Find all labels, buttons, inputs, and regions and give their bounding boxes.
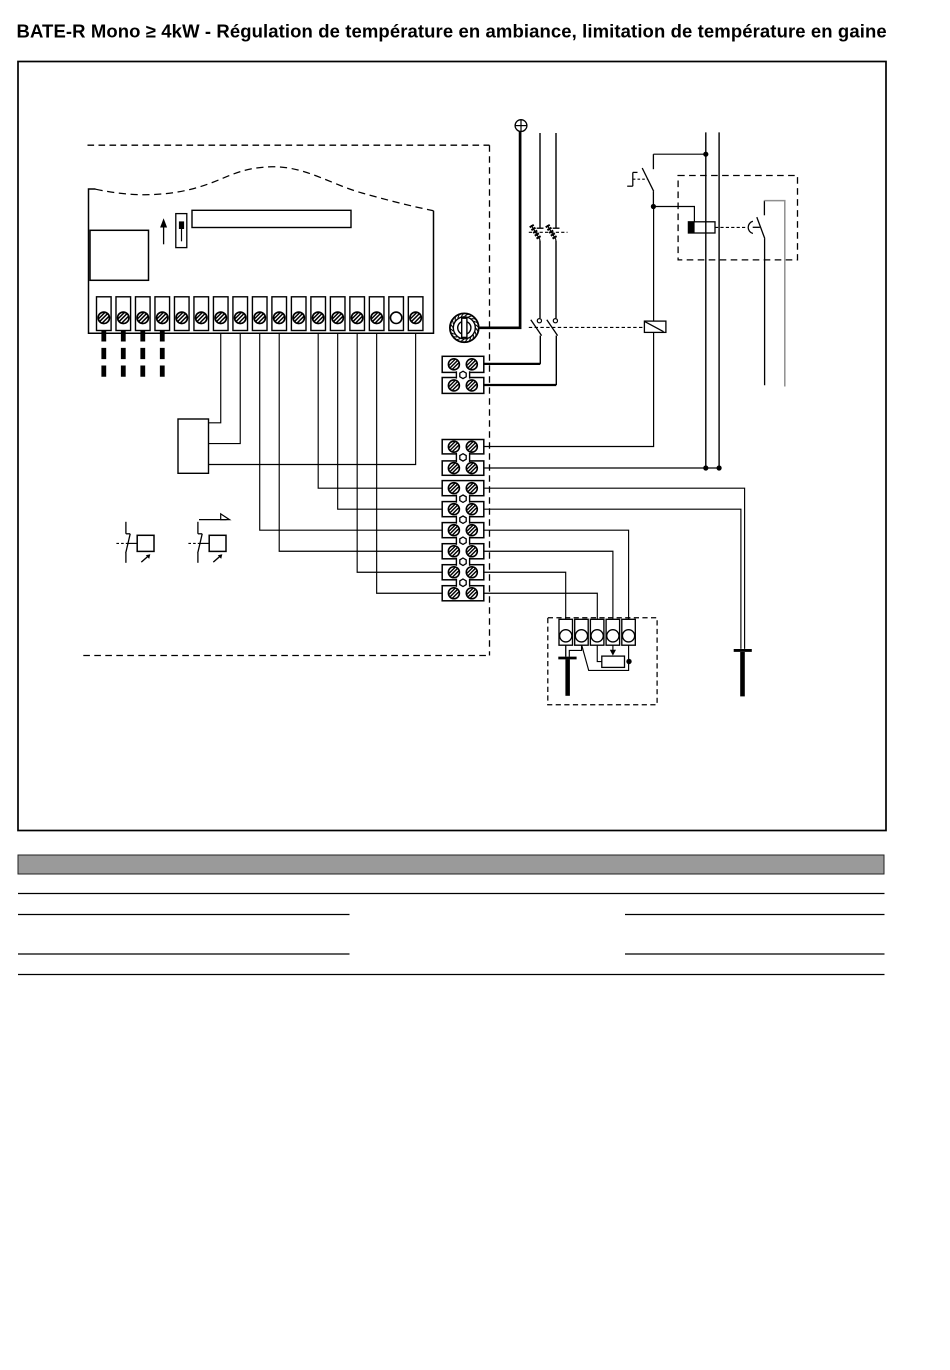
wire switch to contactor coil bbox=[653, 207, 694, 222]
ambiance probe element bbox=[734, 650, 752, 696]
wire TB3 row B to duct probe bbox=[484, 509, 741, 649]
wire terminal 10 to block row D bbox=[279, 333, 442, 551]
circuit breaker + isolator pole 1 (L) bbox=[484, 133, 544, 364]
relay KA1 (rect with diagonal) bbox=[644, 321, 666, 332]
label strip bbox=[192, 210, 351, 227]
wire TB3 row D to sensor terminal 4 bbox=[484, 551, 613, 619]
wire terminal 14 to block row E bbox=[357, 333, 442, 572]
N supply vertical bbox=[718, 132, 720, 468]
wire TB3 row E to sensor terminal 1 bbox=[484, 572, 566, 619]
potentiometer slider bbox=[176, 214, 187, 248]
wire relay to block row 3 bbox=[484, 332, 654, 446]
wire terminal 7 to interface box bbox=[209, 333, 221, 423]
controller U1 (BATE-R regulator) outline bbox=[89, 167, 434, 333]
gray parallel wire bbox=[764, 201, 784, 387]
enclosure boundary (dashed cabinet outline) bbox=[83, 145, 489, 655]
room thermostat B1 bbox=[116, 522, 154, 563]
wire top feed bbox=[653, 153, 705, 155]
node: junction on L bbox=[703, 465, 708, 470]
wire terminal 12 to block row A bbox=[318, 333, 442, 488]
wire N to block row 4 bbox=[484, 467, 719, 469]
terminal block stack TB3 (6 rows) bbox=[442, 481, 484, 601]
wire terminal 17 to interface box bbox=[209, 333, 416, 464]
earth wire (thick) to rotary switch bbox=[479, 132, 520, 328]
sensor terminals 1-5 bbox=[559, 619, 635, 645]
rotary isolator switch S1 bbox=[450, 313, 479, 342]
wire TB3 row A to duct probe bbox=[484, 488, 745, 649]
wire terminal 13 to block row B bbox=[338, 333, 443, 509]
wire terminal 8 to interface box bbox=[209, 333, 241, 443]
wire switch junction to relay bbox=[653, 207, 655, 322]
breaker mechanical link (dashed) bbox=[529, 231, 568, 233]
duct probe element bbox=[558, 658, 576, 696]
sensor internal wiring bbox=[566, 645, 629, 670]
svg-text:BATE-R Mono ≥ 4kW - Régulation: BATE-R Mono ≥ 4kW - Régulation de tempér… bbox=[17, 21, 887, 42]
wire terminal 9 to block row C bbox=[260, 333, 442, 530]
controller display window bbox=[90, 230, 149, 280]
wire terminal 15 to block row F bbox=[377, 333, 443, 593]
coil-contact link (dashed) bbox=[715, 226, 747, 228]
duct sensor dashed box bbox=[548, 618, 657, 705]
wire TB3 row C to sensor terminal 5 bbox=[484, 530, 629, 619]
mains supply dashed stubs (terminals 1-4) bbox=[104, 330, 162, 377]
room thermostat B2 (with arrow) bbox=[188, 514, 229, 563]
node: switch junction bbox=[651, 204, 656, 209]
wire TB3 row F to sensor terminal 3 bbox=[484, 593, 597, 619]
contactor coil KM1 bbox=[688, 222, 715, 233]
contactor auxiliary contact KM1 bbox=[748, 201, 765, 386]
terminal block pair TB1 (mains) bbox=[442, 356, 484, 393]
controller terminal strip (17 screw terminals) bbox=[97, 297, 423, 331]
circuit breaker + isolator pole 2 (N) bbox=[484, 133, 560, 385]
isolator-relay mechanical link (dashed) bbox=[529, 326, 645, 328]
node: resistor junction dot bbox=[626, 659, 631, 664]
node: L feed junction bbox=[703, 152, 708, 157]
PE earth symbol bbox=[515, 120, 527, 132]
manual override switch S2 bbox=[627, 154, 654, 206]
interface box K1 bbox=[178, 419, 209, 473]
node: junction on N bbox=[717, 465, 722, 470]
up arrow indicator bbox=[160, 218, 167, 244]
contactor dashed enclosure bbox=[678, 176, 797, 260]
probe resistor bbox=[602, 656, 625, 667]
terminal block pair TB2 bbox=[442, 440, 484, 476]
L supply vertical bbox=[705, 132, 707, 468]
